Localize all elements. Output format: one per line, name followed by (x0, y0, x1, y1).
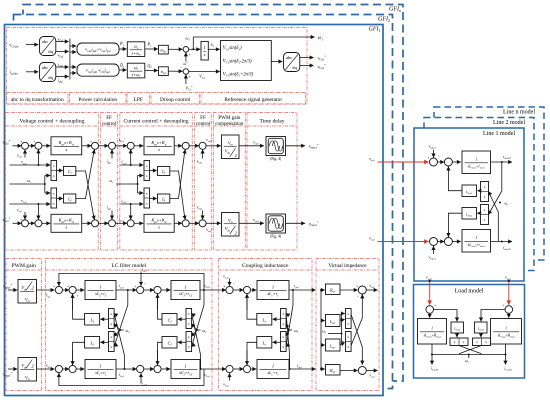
wire bottom node vertical coupling-Lc (289, 355, 291, 369)
cross diagonal vi 1 (351, 315, 362, 365)
wire i_loadQ output (505, 355, 507, 365)
wire omega to lower stack LC-Lf (114, 330, 120, 337)
coupling sum junction q (226, 365, 233, 372)
svg-text:(Fig. 4): (Fig. 4) (270, 234, 282, 238)
wire to FF2 sum q (189, 222, 199, 224)
load sum junction Q (505, 306, 513, 314)
wire v_Cq1 (56, 51, 69, 53)
wire V*C1 into sum (185, 75, 187, 84)
frame Line n model (434, 107, 544, 260)
svg-text:abc: abc (42, 65, 48, 70)
sum junction voltage d output (92, 142, 99, 149)
wire top node vertical coupling-Lc (292, 290, 294, 305)
block L_f (q) (158, 194, 170, 203)
multiplier stack line lower (481, 205, 489, 225)
svg-text:1: 1 (184, 363, 186, 368)
svg-text:+: + (188, 53, 190, 57)
svg-text:LPF: LPF (134, 97, 143, 103)
wire i_lineQ1 output (491, 241, 513, 243)
wire to 1/(sCf+rCf) d (161, 289, 170, 291)
svg-text:(Fig. 4): (Fig. 4) (270, 157, 282, 161)
wire v_Cq1 to coupling (200, 368, 226, 370)
red wire v_bD2 to load sum (429, 281, 431, 305)
wire Cf2 cross to d sum (76, 150, 94, 198)
wire top node vertical LC-Lf (127, 290, 129, 305)
block 1/(sLf+rf) d (85, 281, 116, 300)
wire ref signals to abc-dq (271, 61, 282, 63)
wire i_Ld1 (116, 289, 137, 291)
sum junction voltage d (virtual imp) (22, 142, 29, 149)
wire into Q pill (1) (70, 66, 76, 68)
svg-text:s: s (65, 147, 67, 152)
wire to LC sum2 d (63, 289, 70, 291)
abc-dq transform block (reference) (284, 53, 300, 72)
wire load sum to block D (429, 313, 431, 317)
wire omega split vertical (44, 176, 46, 194)
multiplier stack virtual impedance upper (346, 309, 352, 329)
sum junction voltage d error (35, 142, 42, 149)
node i_lineD1 (501, 161, 503, 163)
svg-text:1: 1 (272, 363, 274, 368)
block reference signal generator (221, 41, 272, 81)
omega tick LC-Lf (120, 329, 124, 331)
frame Line 1 model (414, 128, 524, 281)
wire v_Cq1 down to sum2 bottom (37, 204, 39, 219)
wire block Q down to rail (505, 344, 507, 355)
wire omega split vertical current (137, 176, 139, 194)
section box: FF control (current) (195, 113, 212, 251)
line cross diagonal 1 (488, 191, 501, 215)
node omega split (44, 183, 46, 185)
svg-text:x: x (110, 322, 112, 326)
node omega coupling-Lc (288, 329, 290, 331)
svg-text:x: x (282, 312, 284, 316)
svg-text:dq: dq (292, 65, 297, 70)
block 1/(sLload+Rload) Q (491, 319, 522, 345)
block m_p1 (159, 45, 169, 54)
wire Lf2 cross to d sum (170, 150, 185, 198)
wire PI to sum3 (82, 145, 92, 147)
wire to R_vir d (321, 289, 325, 291)
wire v_C1abc to abc-dq (26, 44, 38, 46)
svg-text:+: + (134, 285, 136, 289)
LC sum junction 3 d (minus i_gd) (137, 286, 144, 293)
wire to line sum2 q (438, 241, 445, 243)
virtual impedance sum d (358, 286, 366, 294)
block L_line1 (upper) (462, 185, 477, 197)
svg-text:x: x (282, 322, 284, 326)
wire load Q feedback via L_load (481, 310, 505, 322)
node i_Cq1 (130, 203, 132, 205)
svg-text:s: s (158, 225, 160, 230)
wire omega to mult2 (45, 192, 50, 194)
wire R_vir to sum q (340, 370, 358, 372)
svg-text:+: + (33, 140, 35, 144)
wire v_md1 to delay (239, 145, 264, 147)
section box: Current control + decoupling (120, 113, 193, 251)
svg-text:x: x (347, 345, 349, 349)
block PWM compensation q: Vm/(Vdc/2) (222, 213, 240, 237)
wire i_Lq1 (116, 368, 137, 370)
load output rail (432, 354, 506, 356)
block C_f (lower) LC-Cf (162, 337, 177, 349)
section box: Coupling inductance (219, 259, 313, 391)
block L_load (right) (475, 322, 488, 333)
wire v*Cd1 to sum (13, 145, 22, 147)
wire to FF sum q (98, 222, 108, 224)
wire v_vd1 into sum (24, 150, 26, 158)
LC sum junction 4 q (154, 365, 161, 372)
wire stack to block upper LC-Lf (100, 318, 108, 320)
wire to FF sum d (98, 145, 108, 147)
block L_f (lower) LC-Lf (85, 337, 100, 349)
svg-text:x: x (188, 335, 190, 339)
wire to voltage PI q (42, 222, 51, 224)
wire line top node vertical (501, 162, 503, 191)
wire omega to vi mult lower (342, 334, 344, 342)
svg-text:x: x (454, 340, 456, 344)
block 1/(sLline1+rline1) d (462, 151, 491, 174)
svg-text:abc to dq transformation: abc to dq transformation (11, 96, 64, 103)
wire i_Cq1 measured (121, 203, 144, 205)
FF2 sum junction d (capacitor voltage) (199, 142, 206, 149)
wire v_vq1 output (366, 370, 377, 372)
section box: LC filter model (46, 259, 213, 391)
wire nq1 to droop sum 2 (168, 70, 182, 72)
LC sum junction 2 q (69, 365, 76, 372)
block L_vir (lower) (326, 339, 341, 351)
svg-text:Droop control: Droop control (160, 97, 191, 103)
wire to voltage PI d (42, 145, 51, 147)
block L_vir (upper) (326, 315, 341, 327)
wire top node vertical LC-Cf (203, 290, 205, 305)
wire L_load to mult (left) (456, 333, 458, 337)
svg-text:Voltage control + decoupling: Voltage control + decoupling (19, 118, 84, 124)
section box: FF control (voltage) (101, 113, 118, 251)
svg-text:abc: abc (286, 55, 292, 60)
multiplier stack line upper (481, 182, 489, 202)
node i_gd1 (292, 289, 294, 291)
multiplier stack voltage q (51, 188, 57, 208)
sum junction current q error (127, 220, 134, 227)
wire L_load to mult (right) (480, 333, 482, 337)
block L_line1 (lower) (462, 208, 477, 220)
integrator 1/s (201, 41, 208, 60)
wire to line block d (452, 161, 460, 163)
svg-text:dq: dq (48, 49, 53, 54)
wire to line sum2 d (438, 161, 445, 163)
svg-text:x: x (476, 340, 478, 344)
svg-text:+: + (53, 285, 55, 289)
svg-text:x: x (188, 312, 190, 316)
wire stack to block lower coupling-Lc (273, 341, 281, 343)
block C_f (q) (64, 194, 76, 203)
wire into Q pill (2) (70, 72, 76, 74)
wire v_id1 to LC sum (37, 289, 55, 291)
wire Cf1 cross to q sum (76, 171, 94, 219)
svg-text:PWM gain: PWM gain (12, 263, 37, 269)
line cross diagonal 2 (488, 192, 498, 213)
svg-text:x: x (485, 340, 487, 344)
svg-text:1: 1 (431, 327, 433, 331)
wire L_f feedback to bottom sum LC-Lf (73, 342, 85, 365)
svg-text:+: + (20, 218, 22, 222)
svg-text:Time delay: Time delay (259, 118, 284, 124)
wire L_c feedback to top sum coupling-Lc (247, 294, 257, 319)
block R_vir (d) (326, 284, 341, 295)
line sum junction d (430, 158, 438, 166)
wire to 1/(sCf+rCf) q (161, 368, 170, 370)
virtual impedance sum q (358, 367, 366, 375)
block 1/(sLc+rc) d (257, 281, 289, 300)
wire L_c feedback to bottom sum coupling-Lc (247, 342, 257, 365)
frame GFI_2 (dashed) (14, 15, 393, 389)
svg-text:abc: abc (42, 39, 48, 44)
wire P~1 (119, 48, 127, 50)
wire v*mda1 output (286, 145, 306, 147)
section box: Time delay (247, 113, 297, 251)
section label cell: abc to dq transformation (7, 93, 69, 104)
frame Line 2 model (424, 118, 534, 271)
wire to 1/(sLc+rc) q (251, 368, 257, 370)
wire v_vd1 output (366, 289, 377, 291)
frame GFI_n (dashed) (23, 5, 403, 382)
section box: power/droop row (7, 28, 308, 105)
wire to coupling sum2 q (233, 368, 243, 370)
wire L_f feedback to top sum LC-Lf (73, 294, 85, 319)
wire mult to L_line upper (478, 190, 481, 192)
svg-text:x: x (484, 185, 486, 189)
svg-text:1: 1 (475, 236, 477, 240)
block L_f (upper) LC-Lf (85, 314, 100, 326)
block PWM compensation d: Vm/(Vdc/2) (222, 135, 240, 159)
svg-text:VC1sin(δ1+2π/3): VC1sin(δ1+2π/3) (223, 72, 254, 77)
svg-text:x: x (53, 201, 55, 205)
node omega line (499, 202, 501, 204)
svg-text:VC1sin(δ1): VC1sin(δ1) (223, 46, 242, 51)
abc-dq transform block (voltage) (40, 37, 56, 56)
svg-text:x: x (282, 345, 284, 349)
wire PI q to sum3 (82, 222, 92, 224)
block L_load (left) (451, 322, 464, 333)
LPF block (P) (127, 42, 145, 57)
wire mult to L_line lower (477, 212, 480, 214)
wire i*Cd1 to current sum (115, 145, 127, 147)
svg-text:x: x (53, 164, 55, 168)
sum junction current d output (182, 142, 189, 149)
sum junction voltage q (virtual imp) (22, 220, 29, 227)
multiplier stack lower LC-Cf (186, 332, 192, 352)
wire omega1 current section (116, 183, 138, 185)
wire mp1 to droop sum (168, 48, 182, 50)
svg-text:x: x (146, 191, 148, 195)
block C_f (upper) LC-Cf (162, 314, 177, 326)
wire bottom node vertical LC-Cf (200, 355, 202, 369)
svg-text:x: x (146, 174, 148, 178)
sum junction current q output (182, 220, 189, 227)
wire i_loadD output (431, 355, 433, 365)
wire C_f feedback to bottom sum LC-Cf (158, 342, 163, 365)
block 1/(sLline1+rline1) q (462, 230, 491, 253)
wire to L_vir lower (321, 344, 325, 346)
node v_Cd1 (203, 289, 205, 291)
wire i_gq1 disturbance into sum (140, 373, 142, 383)
FF sum junction q (grid current) (109, 220, 116, 227)
node v_bQ2 (508, 280, 510, 282)
svg-text:Line 1 model: Line 1 model (483, 131, 515, 137)
block 1/(sLf+rf) q (85, 360, 116, 379)
svg-text:x: x (463, 340, 465, 344)
node i_gq1 (289, 368, 291, 370)
wire i_Cd1 measured (121, 164, 144, 166)
multiplier stack voltage d (51, 161, 57, 181)
block L_c (upper) coupling-Lc (257, 314, 272, 326)
wire block D down to rail (431, 344, 433, 355)
wire v_Cd1 (56, 41, 69, 43)
wire omega1 to 1/s (189, 48, 201, 50)
wire v_Cq1 measured (10, 203, 51, 205)
FF2 sum junction q (capacitor voltage) (199, 220, 206, 227)
multiplier stack virtual impedance lower (346, 332, 352, 352)
svg-text:+: + (188, 75, 190, 79)
svg-text:x: x (53, 174, 55, 178)
block 1/(sCf+rCf) d (171, 281, 200, 300)
block voltage PI q (51, 214, 82, 232)
wire i_gq1 (56, 76, 69, 78)
wire mult to Lf2 (150, 198, 157, 200)
wire load sum to block Q (508, 313, 510, 317)
section label cell: Droop control (151, 93, 200, 104)
wire v_vq1 into sum (24, 212, 26, 219)
svg-text:control: control (102, 121, 117, 127)
multiplier stack lower coupling-Lc (281, 332, 287, 352)
svg-text:Current control + decoupling: Current control + decoupling (123, 118, 188, 124)
wire omega to upper stack coupling-Lc (286, 324, 289, 331)
cross diagonal bottom-to-upper-stack coupling-Lc (286, 314, 290, 356)
wire to R_vir q (321, 368, 325, 370)
red wire v_bq1 to Line 1 (378, 241, 429, 243)
sum junction voltage q error (35, 220, 42, 227)
block Q = vCq*igd - vCd*igq (77, 64, 119, 76)
wire i_lineD1 output (491, 161, 513, 163)
omega tick coupling-Lc (289, 329, 293, 331)
bus line dq signals (69, 39, 71, 80)
section label cell: Power calculation (70, 93, 127, 104)
svg-text:x: x (110, 335, 112, 339)
frame GFI_1 (solid) (5, 25, 384, 396)
wire mult to Cf2 (57, 198, 63, 200)
wire to 1/(sLf+rf) d (76, 289, 84, 291)
node i_lineQ1 (501, 241, 503, 243)
wire VC1 to reference gen (189, 71, 220, 73)
node omega LC-Lf (119, 329, 121, 331)
wire i_Cq1 down to sum (130, 204, 132, 219)
svg-text:x: x (188, 345, 190, 349)
wire omega to upper stack LC-Cf (191, 324, 197, 331)
svg-text:1: 1 (272, 284, 274, 289)
multiplier stack upper coupling-Lc (281, 309, 287, 329)
svg-text:1: 1 (184, 284, 186, 289)
section label cell: Reference signal generator (201, 93, 306, 104)
wire L_vir to mult lower (340, 342, 345, 345)
svg-text:1: 1 (475, 158, 477, 162)
svg-text:Line n model: Line n model (503, 110, 535, 116)
multiplier box load (left) (450, 338, 468, 346)
node i_Cd1 (130, 164, 132, 166)
wire omega to upper stack LC-Lf (114, 324, 120, 331)
svg-text:Load model: Load model (455, 289, 484, 295)
wire omega to mult1 (45, 175, 50, 177)
svg-text:+: + (67, 285, 69, 289)
wire v_bq1 into coupling sum (229, 373, 231, 380)
node omega split current (137, 183, 139, 185)
svg-text:x: x (188, 322, 190, 326)
wire PI to current sum3 (174, 145, 182, 147)
block current PI d (144, 137, 174, 155)
wire v_bd1 into coupling sum (229, 279, 231, 286)
cross diagonal top-to-lower-stack LC-Lf (114, 305, 128, 347)
svg-text:Power calculation: Power calculation (78, 97, 117, 103)
block current PI q (144, 214, 174, 232)
wire v_Cq1 into FF2 sum (202, 211, 204, 220)
wire v*cd1 to PWM comp (206, 145, 221, 147)
svg-text:1: 1 (99, 284, 101, 289)
wire v_Cd1 measured (10, 164, 51, 166)
wire to line block q (452, 241, 460, 243)
node v_Cq1 (37, 203, 39, 205)
wire v*cq1 to PWM comp (206, 222, 221, 224)
node virtual impedance input q (320, 368, 322, 370)
LC sum junction 4 d (omega Cf vq) (154, 286, 161, 293)
LPF block (Q) (127, 63, 145, 78)
wire stack to block upper LC-Cf (178, 318, 186, 320)
wire i*Cq1 to current sum (115, 222, 127, 224)
svg-text:s: s (158, 147, 160, 152)
sum junction droop-frequency (183, 47, 189, 53)
wire i_gd1 to virtual impedance (289, 289, 316, 291)
LC sum junction 3 q (137, 365, 144, 372)
wire L_line feedback to top sum (448, 167, 462, 191)
block PWM gain q: (Vdc/2)/Vm (18, 358, 37, 382)
block L_f (d) (158, 167, 170, 176)
red wire v_bd1 to Line 1 (378, 161, 429, 163)
block C_f (d) (64, 167, 76, 176)
wire i_gd1 into FF sum (111, 150, 113, 159)
wire to sum2 q (28, 222, 35, 224)
svg-text:+: + (223, 285, 225, 289)
load cross diagonal 2 (459, 346, 481, 354)
wire omega to lower stack LC-Cf (191, 330, 197, 337)
wire v_Cq1 feedback rail q (59, 369, 204, 386)
wire v*Cq1 to sum (13, 222, 22, 224)
svg-text:compensation: compensation (215, 121, 244, 127)
section box: Virtual impedance (316, 259, 379, 391)
wire line bottom node vertical (497, 212, 499, 242)
svg-text:x: x (146, 164, 148, 168)
cross diagonal vi 2 (351, 295, 362, 346)
node i_Ld1 (127, 289, 129, 291)
svg-text:x: x (484, 208, 486, 212)
wire v_bd(1) into line sum (433, 150, 435, 158)
load cross diagonal 1 (459, 346, 481, 354)
node v_bD2 (429, 280, 431, 282)
wire to LC sum4 q (144, 368, 154, 370)
wire mult to Cf1 (57, 170, 63, 172)
section label cell: LPF (127, 93, 150, 104)
wire i_gq1 into FF sum (111, 211, 113, 220)
svg-text:control: control (196, 121, 211, 127)
wire to LC sum4 d (144, 289, 154, 291)
